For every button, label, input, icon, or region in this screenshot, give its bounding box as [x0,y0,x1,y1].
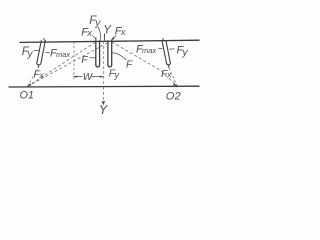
svg-text:y: y [27,49,34,60]
svg-text:max: max [56,50,70,59]
svg-text:y: y [114,70,120,80]
svg-text:F: F [126,58,133,70]
svg-text:O1: O1 [20,90,34,102]
svg-text:F: F [81,54,88,66]
svg-text:y: y [182,48,189,59]
svg-text:x: x [166,70,172,80]
svg-text:O2: O2 [166,90,182,102]
svg-text:x: x [120,27,126,37]
svg-text:x: x [39,70,45,80]
svg-text:W: W [83,72,94,83]
svg-text:max: max [142,46,156,55]
svg-text:x: x [86,28,92,38]
svg-text:y: y [94,18,101,29]
svg-text:Y: Y [103,25,112,37]
